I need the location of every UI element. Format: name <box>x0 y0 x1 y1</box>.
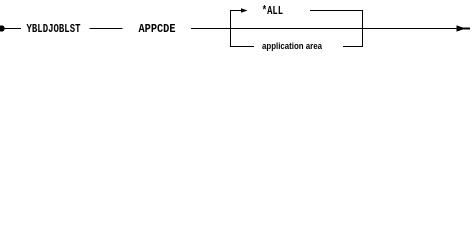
svg-text:YBLDJOBLST: YBLDJOBLST <box>27 22 81 36</box>
svg-text:application area: application area <box>262 41 323 52</box>
svg-text:*ALL: *ALL <box>262 4 283 18</box>
svg-text:APPCDE: APPCDE <box>139 22 176 36</box>
